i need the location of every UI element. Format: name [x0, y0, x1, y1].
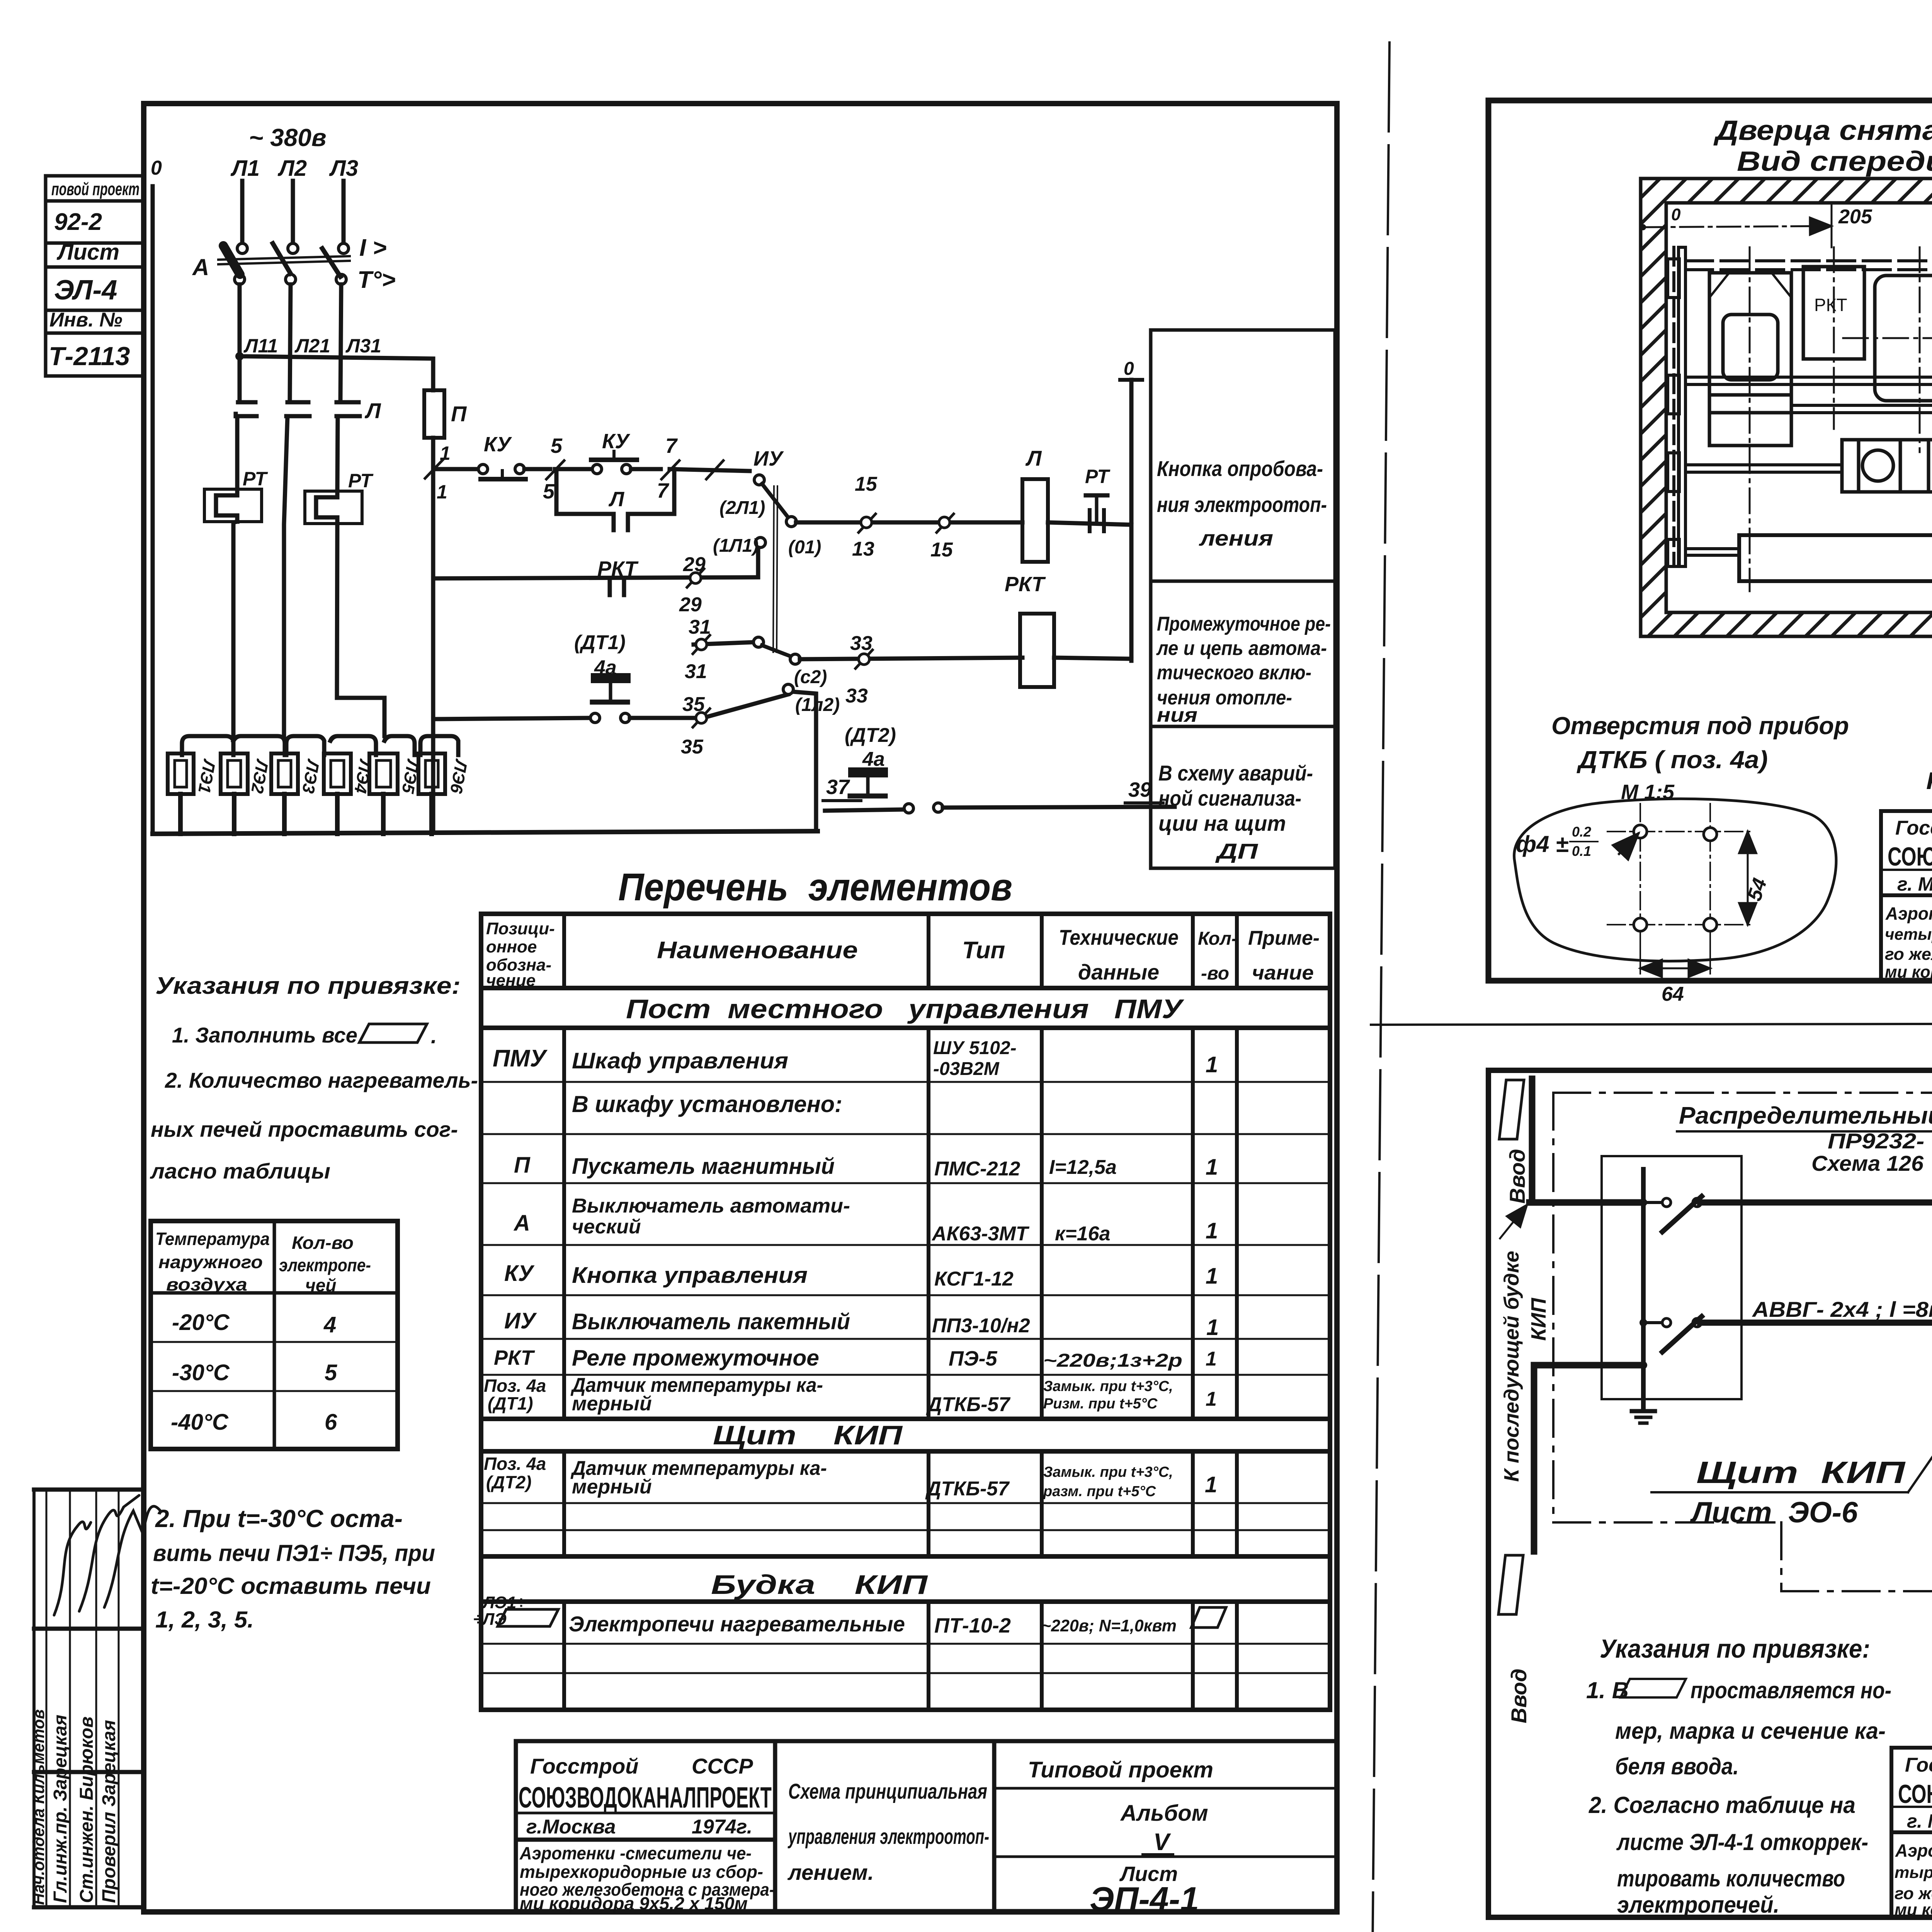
- heading Raspredelitelny punkt: [1677, 1102, 1932, 1175]
- svg-text:РКТ: РКТ: [1814, 295, 1847, 315]
- svg-text:29: 29: [683, 553, 706, 576]
- svg-text:Альбом: Альбом: [1120, 1801, 1208, 1826]
- wire L1 to heater bank: [233, 522, 237, 736]
- svg-text:(ДТ2): (ДТ2): [845, 724, 896, 747]
- svg-text:П: П: [514, 1153, 531, 1178]
- svg-text:В шкафу установлено:: В шкафу установлено:: [572, 1091, 842, 1117]
- svg-text:электропечей.: электропечей.: [1617, 1892, 1779, 1918]
- wire to next booth: [1534, 1365, 1642, 1551]
- svg-text:33: 33: [845, 685, 868, 707]
- svg-text:мерный: мерный: [572, 1393, 652, 1415]
- row1 wire to L coil: [796, 520, 1022, 525]
- svg-text:31: 31: [689, 616, 711, 638]
- node 5 slash: [543, 434, 564, 503]
- svg-text:ДТКБ-57: ДТКБ-57: [926, 1393, 1010, 1416]
- contactor L aux contact branch: [556, 469, 674, 530]
- svg-text:тырехкоридорные из сборно-: тырехкоридорные из сборно-: [1895, 1863, 1932, 1881]
- svg-text:37: 37: [826, 776, 850, 799]
- svg-text:тического вклю-: тического вклю-: [1157, 662, 1311, 684]
- table body texts: [493, 1038, 1219, 1340]
- svg-text:Ризм. при t+5°C: Ризм. при t+5°C: [1043, 1396, 1158, 1412]
- svg-text:1: 1: [1206, 1155, 1218, 1180]
- svg-text:Указания по привязке:: Указания по привязке:: [155, 973, 461, 999]
- svg-text:0: 0: [1671, 205, 1681, 224]
- svg-text:33: 33: [850, 632, 872, 655]
- svg-text:ПП3-10/н2: ПП3-10/н2: [932, 1315, 1030, 1337]
- svg-text:ДП: ДП: [1215, 839, 1259, 863]
- sheet divider horizontal line: [1371, 1023, 1932, 1025]
- svg-text:А: А: [192, 254, 209, 280]
- svg-text:РТ: РТ: [243, 468, 268, 490]
- svg-text:1: 1: [1206, 1348, 1217, 1370]
- svg-text:Т-2113: Т-2113: [49, 342, 130, 371]
- svg-text:го железобетона с размера-: го железобетона с размера-: [1885, 945, 1932, 964]
- svg-text:4: 4: [323, 1312, 336, 1337]
- relay RKT contact row: [433, 548, 758, 616]
- svg-text:ПМУ: ПМУ: [493, 1045, 548, 1072]
- svg-text:ческий: ческий: [572, 1216, 641, 1238]
- svg-text:Ввод: Ввод: [1507, 1668, 1531, 1723]
- wire from (1le) down to bus: [792, 692, 816, 831]
- svg-text:15: 15: [930, 539, 953, 561]
- svg-text:Указания по привязке:: Указания по привязке:: [1600, 1634, 1870, 1663]
- right-top title block: [1881, 811, 1932, 981]
- notes: [1926, 674, 1932, 794]
- svg-text:листе ЭЛ-4-1 откоррек-: листе ЭЛ-4-1 откоррек-: [1616, 1829, 1868, 1855]
- svg-text:разм. при t+5°C: разм. при t+5°C: [1043, 1483, 1156, 1500]
- svg-text:ления: ления: [1199, 526, 1273, 550]
- svg-text:Технические: Технические: [1059, 925, 1179, 949]
- label K posleduyushchey budke KIP: [1500, 1251, 1550, 1482]
- svg-text:Тип: Тип: [962, 937, 1005, 964]
- wire L coil to RT contact: [1048, 522, 1131, 525]
- svg-text:7: 7: [665, 434, 678, 457]
- cursive signatures: [54, 1495, 160, 1615]
- svg-text:Схема принципиальная: Схема принципиальная: [788, 1779, 987, 1803]
- svg-text:(1л2): (1л2): [795, 695, 840, 715]
- svg-text:ми коридора 9 х 5, 2 х 150м.: ми коридора 9 х 5, 2 х 150м.: [1885, 963, 1932, 981]
- svg-text:~220в; N=1,0квт: ~220в; N=1,0квт: [1041, 1616, 1177, 1635]
- cabinet front view: hatched wall: [1641, 179, 1932, 636]
- heater bottom bus wire: [153, 794, 818, 834]
- svg-text:П: П: [451, 401, 467, 426]
- wire phase L2 top: [291, 181, 295, 243]
- svg-text:Схема 126: Схема 126: [1811, 1151, 1924, 1175]
- svg-text:(2Л1): (2Л1): [719, 498, 765, 518]
- horizontal rails: [1685, 261, 1932, 270]
- svg-text:31: 31: [685, 660, 707, 683]
- svg-text:ной сигнализа-: ной сигнализа-: [1158, 786, 1301, 810]
- svg-text:(1Л1): (1Л1): [713, 536, 759, 556]
- svg-text:Поз. 4а: Поз. 4а: [484, 1376, 546, 1396]
- svg-text:В схему аварий-: В схему аварий-: [1158, 761, 1313, 785]
- svg-text:1. Заполнить все: 1. Заполнить все: [172, 1023, 357, 1047]
- svg-text:Распределительный пункт ( щи: Распределительный пункт ( щиток освещени…: [1679, 1102, 1932, 1129]
- svg-text:6: 6: [325, 1410, 337, 1435]
- svg-text:ДТКБ-57: ДТКБ-57: [925, 1478, 1010, 1500]
- svg-text:Госстрой: Госстрой: [1905, 1754, 1932, 1776]
- node 7 slash: [657, 434, 679, 502]
- svg-text:Шкаф управления: Шкаф управления: [572, 1048, 788, 1073]
- left sheet frame: [144, 104, 1337, 1912]
- svg-text:ИУ: ИУ: [753, 447, 784, 470]
- svg-text:Наименование: Наименование: [657, 937, 858, 964]
- svg-text:чей: чей: [305, 1275, 337, 1295]
- svg-text:2. При t=-30°C оста-: 2. При t=-30°C оста-: [155, 1505, 403, 1532]
- svg-text:1: 1: [1206, 1315, 1219, 1340]
- svg-text:Реле промежуточное: Реле промежуточное: [572, 1345, 819, 1371]
- svg-text:мерный: мерный: [572, 1476, 652, 1498]
- svg-text:Выключатель автомати-: Выключатель автомати-: [572, 1195, 850, 1217]
- svg-text:А: А: [513, 1211, 530, 1236]
- svg-text:онное: онное: [486, 937, 537, 956]
- svg-text:Аэротенки-смесители че-: Аэротенки-смесители че-: [1895, 1840, 1932, 1861]
- svg-text:Ст.инжен. Бирюков: Ст.инжен. Бирюков: [77, 1716, 97, 1903]
- svg-text:К последующей будке: К последующей будке: [1500, 1251, 1523, 1482]
- svg-text:Л: Л: [608, 488, 625, 511]
- svg-text:1: 1: [1206, 1052, 1218, 1077]
- svg-text:Дверца снята: Дверца снята: [1713, 115, 1932, 146]
- svg-text:13: 13: [852, 538, 874, 560]
- sensor DT1 row 35: [433, 631, 840, 758]
- svg-text:64: 64: [1662, 983, 1684, 1005]
- svg-text:ДТКБ ( поз. 4а): ДТКБ ( поз. 4а): [1577, 746, 1768, 774]
- svg-text:2. Согласно таблице на: 2. Согласно таблице на: [1588, 1792, 1855, 1818]
- svg-text:Л: Л: [1025, 446, 1042, 470]
- contactor L main contacts: [236, 402, 360, 416]
- svg-text:1: 1: [440, 442, 451, 464]
- svg-text:Аэротенки-смесители: Аэротенки-смесители: [1885, 903, 1932, 923]
- svg-text:четырехкоридорные из сборно-: четырехкоридорные из сборно-: [1885, 925, 1932, 943]
- svg-text:92-2: 92-2: [54, 209, 102, 235]
- svg-text:Приме-: Приме-: [1248, 927, 1320, 949]
- svg-text:Пускатель магнитный: Пускатель магнитный: [572, 1154, 835, 1179]
- svg-text:4а: 4а: [862, 748, 885, 770]
- wire cable 4 run: [1700, 1320, 1932, 1326]
- svg-text:1: 1: [1206, 1218, 1218, 1243]
- svg-text:-во: -во: [1201, 963, 1229, 984]
- svg-text:КУ: КУ: [504, 1261, 535, 1286]
- svg-text:1974г.: 1974г.: [692, 1816, 752, 1838]
- svg-text:7: 7: [657, 479, 670, 502]
- svg-text:Проверил Зарецкая: Проверил Зарецкая: [99, 1720, 119, 1903]
- svg-text:проставляется но-: проставляется но-: [1690, 1677, 1891, 1703]
- terminal block with two round lamps: [1842, 440, 1932, 492]
- svg-text:Л1: Л1: [230, 156, 260, 181]
- svg-text:5: 5: [543, 480, 555, 503]
- building outline dash-dot: [1553, 1093, 1932, 1591]
- svg-text:Щит КИП: Щит КИП: [1696, 1455, 1906, 1490]
- svg-text:I=12,5а: I=12,5а: [1049, 1156, 1117, 1179]
- svg-text:Гл.инж.пр. Зарецкая: Гл.инж.пр. Зарецкая: [50, 1714, 71, 1903]
- svg-text:ласно таблицы: ласно таблицы: [150, 1159, 330, 1183]
- bottom-left signature stamp table: [34, 1490, 144, 1907]
- button KU break contact: [478, 433, 526, 479]
- thermal relay RT (phase L1): [204, 468, 268, 522]
- svg-text:СОЮЗВОДОКАНАЛПРОЕКТ: СОЮЗВОДОКАНАЛПРОЕКТ: [519, 1781, 772, 1814]
- svg-text:Замык. при t+3°C,: Замык. при t+3°C,: [1043, 1378, 1173, 1395]
- svg-text:Кнопка управления: Кнопка управления: [572, 1263, 808, 1288]
- svg-text:ми коридора 9х5,2 х 150м: ми коридора 9х5,2 х 150м: [520, 1893, 748, 1913]
- svg-text:Перечень элементов: Перечень элементов: [618, 866, 1012, 909]
- instructions bottom-right: [1586, 1634, 1891, 1918]
- svg-text:СОЮЗВОДОКАНАЛПРОЕКТ: СОЮЗВОДОКАНАЛПРОЕКТ: [1898, 1779, 1932, 1809]
- svg-text:29: 29: [679, 594, 702, 616]
- svg-text:Л3: Л3: [329, 156, 358, 181]
- thermal relay RT (phase L3): [305, 470, 374, 524]
- left DIN rail: [1672, 247, 1675, 566]
- svg-text:г. Москва: г. Москва: [1897, 873, 1932, 895]
- wire phase L1 top: [240, 181, 245, 243]
- cable marker parallelogram top: [1499, 1080, 1524, 1139]
- wire L11/L21/L31 drops: [238, 284, 242, 400]
- svg-text:Л2: Л2: [277, 156, 307, 181]
- incoming cable wire: [1529, 1079, 1642, 1202]
- svg-text:чение: чение: [486, 971, 536, 990]
- node 15 slash: [930, 514, 954, 561]
- wire P coil to row1 and down to bus: [431, 438, 435, 831]
- svg-text:Поз. 4а: Поз. 4а: [484, 1454, 546, 1474]
- distribution board box: [1602, 1156, 1742, 1399]
- svg-text:г. Москва: г. Москва: [1907, 1810, 1932, 1832]
- svg-text:1: 1: [1205, 1472, 1217, 1497]
- svg-text:Температура: Температура: [155, 1229, 270, 1249]
- wire below contacts: [235, 416, 240, 489]
- module RKT relay: [1803, 247, 1864, 429]
- svg-text:1: 1: [1206, 1388, 1217, 1410]
- button KU make contact: [591, 430, 637, 474]
- node 0 (zero bus): [151, 157, 162, 834]
- svg-text:-30°C: -30°C: [172, 1360, 230, 1385]
- svg-text:РКТ: РКТ: [1005, 573, 1046, 596]
- svg-text:КУ: КУ: [484, 433, 512, 456]
- svg-text:Позици-: Позици-: [486, 919, 555, 938]
- svg-text:г.Москва: г.Москва: [526, 1816, 616, 1838]
- svg-text:беля ввода.: беля ввода.: [1615, 1753, 1739, 1779]
- svg-text:Кнопка опробова-: Кнопка опробова-: [1157, 456, 1323, 481]
- svg-text:ПМС-212: ПМС-212: [934, 1158, 1020, 1180]
- svg-text:СОЮЗВОДОКАНАЛПРОЕКТ: СОЮЗВОДОКАНАЛПРОЕКТ: [1888, 842, 1932, 871]
- sensor DT2 row 37-39: [823, 724, 1175, 813]
- svg-text:Типовой проект: Типовой проект: [1028, 1757, 1213, 1782]
- svg-text:тировать количество: тировать количество: [1617, 1866, 1845, 1891]
- extra slash: [706, 461, 723, 479]
- svg-text:(ДТ1): (ДТ1): [574, 631, 626, 654]
- svg-text:Л31: Л31: [345, 335, 381, 357]
- module B (breaker): [1843, 247, 1932, 452]
- wire L3 jog to heater bank: [337, 524, 384, 736]
- svg-text:ЭЛ-4: ЭЛ-4: [54, 275, 117, 306]
- svg-text:Лист ЭО-6: Лист ЭО-6: [1690, 1496, 1858, 1529]
- svg-text:V: V: [1153, 1829, 1171, 1855]
- svg-text:~ 380в: ~ 380в: [249, 124, 327, 151]
- table header texts: [486, 919, 1320, 990]
- temperature table: [151, 1221, 398, 1449]
- svg-text:воздуха: воздуха: [166, 1274, 247, 1294]
- svg-text:Госстрой: Госстрой: [1895, 817, 1932, 839]
- svg-text:0: 0: [151, 157, 162, 179]
- top-left stamp boxes: [46, 176, 144, 376]
- svg-text:1. В: 1. В: [1586, 1677, 1629, 1703]
- svg-text:СССР: СССР: [692, 1754, 753, 1778]
- svg-text:Кол-: Кол-: [1198, 929, 1238, 949]
- svg-text:тырехкоридорные из сбор-: тырехкоридорные из сбор-: [520, 1862, 763, 1882]
- svg-text:35: 35: [682, 693, 705, 716]
- svg-text:ми коридора 9х5, 2 х 150м: ми коридора 9х5, 2 х 150м: [1895, 1900, 1932, 1919]
- hole pattern blob: [1514, 799, 1836, 1005]
- svg-text:мер, марка и сечение ка-: мер, марка и сечение ка-: [1615, 1718, 1886, 1744]
- svg-text:РТ: РТ: [348, 470, 374, 492]
- svg-text:Отверстия под прибор: Отверстия под прибор: [1551, 712, 1849, 740]
- hole drawing heading: [1551, 712, 1849, 804]
- svg-text:Кол-во: Кол-во: [292, 1233, 354, 1253]
- svg-text:0.2: 0.2: [1572, 824, 1591, 840]
- heater pair jumper arcs: [182, 736, 458, 755]
- wire junction dot KIP line: [1639, 1361, 1647, 1369]
- bottom long block: [1739, 535, 1932, 581]
- svg-text:АК63-3МТ: АК63-3МТ: [931, 1223, 1030, 1245]
- svg-text:ПЭ-5: ПЭ-5: [949, 1347, 998, 1370]
- label Shchit KIP: [1651, 1423, 1932, 1529]
- svg-text:Л: Л: [364, 398, 381, 423]
- svg-text:Замык. при t+3°C,: Замык. при t+3°C,: [1043, 1464, 1173, 1480]
- right-bottom title block: [1891, 1748, 1932, 1917]
- breaker A (automatic switch): [192, 235, 396, 293]
- svg-text:(01): (01): [788, 537, 821, 558]
- svg-text:Л21: Л21: [294, 335, 330, 357]
- svg-text:РТ: РТ: [1085, 466, 1111, 487]
- heater elements PE1..PE6: [168, 753, 471, 795]
- svg-text:1, 2, 3, 5.: 1, 2, 3, 5.: [155, 1607, 254, 1633]
- switch fuse 2: [1639, 1316, 1702, 1352]
- svg-text:чание: чание: [1252, 962, 1314, 984]
- svg-text:Ввод: Ввод: [1505, 1149, 1529, 1204]
- right comment box: [1151, 330, 1335, 868]
- svg-text:39: 39: [1128, 778, 1151, 801]
- node 15/13 slash: [852, 473, 878, 560]
- svg-text:повой проект: повой проект: [51, 179, 139, 199]
- svg-text:1: 1: [437, 481, 447, 503]
- svg-text:РКТ: РКТ: [494, 1346, 535, 1369]
- svg-text:РКТ (тип ПЭ-5) и датчик (тип: РКТ (тип ПЭ-5) и датчик (тип ДТКБ-57): [1926, 768, 1932, 794]
- switch IU: [713, 447, 821, 652]
- svg-text:КСГ1-12: КСГ1-12: [934, 1268, 1014, 1290]
- svg-text:ШУ 5102-: ШУ 5102-: [933, 1038, 1017, 1058]
- svg-text:35: 35: [681, 736, 704, 758]
- svg-text:вить печи ПЭ1÷ ПЭ5, при: вить печи ПЭ1÷ ПЭ5, при: [153, 1540, 435, 1566]
- svg-text:Госстрой: Госстрой: [530, 1754, 639, 1778]
- relay RKT coil: [1005, 573, 1131, 687]
- module A (contactor): [1709, 247, 1791, 591]
- thermal contact RT on row1: [1085, 466, 1111, 531]
- svg-text:2. Количество нагреватель-: 2. Количество нагреватель-: [165, 1068, 478, 1092]
- svg-text:ции на щит: ции на щит: [1158, 811, 1286, 835]
- svg-text:ИУ: ИУ: [504, 1308, 537, 1333]
- svg-text:ния электроотоп-: ния электроотоп-: [1157, 492, 1327, 517]
- svg-text:электропе-: электропе-: [279, 1255, 371, 1275]
- wire L2 to heater bank: [284, 416, 287, 736]
- switch (c2) row 31/33: [685, 616, 1022, 707]
- svg-text:ф4 ±: ф4 ±: [1516, 831, 1568, 857]
- svg-text:0: 0: [1124, 359, 1134, 379]
- node 1 slash: [425, 442, 451, 503]
- svg-text:205: 205: [1838, 206, 1872, 228]
- svg-text:Аэротенки -смесители че-: Аэротенки -смесители че-: [519, 1843, 752, 1863]
- svg-text:управления электроотоп-: управления электроотоп-: [787, 1824, 989, 1849]
- svg-text:Промежуточное ре-: Промежуточное ре-: [1157, 613, 1331, 635]
- dim 205: [1640, 204, 1872, 247]
- svg-text:5: 5: [325, 1360, 337, 1385]
- svg-text:-40°C: -40°C: [171, 1410, 229, 1435]
- svg-text:(с2): (с2): [794, 667, 827, 687]
- svg-text:ПТ-10-2: ПТ-10-2: [934, 1614, 1011, 1637]
- svg-text:-20°C: -20°C: [172, 1310, 230, 1335]
- svg-text:ПР9232- ШР: ПР9232- ШР: [1828, 1129, 1932, 1153]
- svg-text:~220в;1з+2р: ~220в;1з+2р: [1043, 1350, 1182, 1371]
- svg-text:-03В2М: -03В2М: [933, 1059, 1000, 1079]
- svg-text:КИП: КИП: [1527, 1298, 1550, 1341]
- svg-text:(ДТ1): (ДТ1): [488, 1393, 533, 1413]
- svg-text:к=16а: к=16а: [1055, 1223, 1110, 1245]
- svg-text:данные: данные: [1078, 960, 1159, 984]
- svg-text:Электропечи нагревательные: Электропечи нагревательные: [569, 1612, 905, 1636]
- inner mounting plate components: [1668, 247, 1932, 566]
- svg-text:Щит КИП: Щит КИП: [713, 1420, 903, 1450]
- bus bar: [1641, 1169, 1646, 1407]
- svg-text:АВВГ- 2х4 ; l =8м: АВВГ- 2х4 ; l =8м: [1752, 1297, 1932, 1321]
- cable marker parallelogram bottom: [1498, 1555, 1523, 1614]
- svg-text:КУ: КУ: [602, 430, 630, 453]
- wire cable 3 run: [1700, 1199, 1932, 1206]
- svg-text:Нач.отдела Кильметов: Нач.отдела Кильметов: [29, 1709, 48, 1905]
- sheet divider vertical line: [1372, 43, 1389, 1932]
- node 0 right rail: [1120, 359, 1142, 661]
- svg-text:0.1: 0.1: [1572, 843, 1591, 859]
- svg-text:15: 15: [855, 473, 878, 495]
- svg-text:Инв. №: Инв. №: [49, 309, 122, 331]
- svg-text:5: 5: [551, 434, 563, 457]
- svg-text:Выключатель пакетный: Выключатель пакетный: [572, 1309, 850, 1334]
- contactor P coil: [424, 390, 467, 438]
- svg-text:ния: ния: [1157, 704, 1197, 726]
- row1 wire: [433, 467, 478, 471]
- labels ~380v L1 L2 L3: [230, 124, 358, 181]
- svg-text:1: 1: [1206, 1264, 1218, 1289]
- node L11 bus to P coil: [235, 335, 433, 390]
- svg-text:ле и цепь автома-: ле и цепь автома-: [1156, 637, 1327, 660]
- svg-text:Вид спереди: Вид спереди: [1737, 146, 1932, 177]
- svg-text:наружного: наружного: [158, 1252, 263, 1272]
- svg-text:ЭП-4-1: ЭП-4-1: [1090, 1880, 1199, 1918]
- svg-text:лением.: лением.: [787, 1860, 874, 1884]
- svg-text:.: .: [431, 1024, 437, 1048]
- contactor L coil: [1022, 446, 1048, 562]
- svg-text:T°>: T°>: [357, 267, 396, 293]
- ground: [1632, 1411, 1655, 1423]
- wire phase L3 top: [342, 181, 346, 243]
- svg-text:ных печей проставить сог-: ных печей проставить сог-: [151, 1117, 458, 1141]
- svg-text:t=-20°C оставить печи: t=-20°C оставить печи: [151, 1573, 431, 1599]
- svg-text:I >: I >: [359, 235, 387, 261]
- svg-text:Л11: Л11: [243, 335, 278, 357]
- switch fuse 1: [1639, 1196, 1702, 1232]
- svg-text:Будка КИП: Будка КИП: [711, 1570, 928, 1600]
- svg-text:Пост местного управления: Пост местного управления ПМУ: [626, 994, 1184, 1024]
- svg-text:Лист: Лист: [56, 240, 119, 265]
- svg-text:(ДТ2): (ДТ2): [486, 1472, 532, 1492]
